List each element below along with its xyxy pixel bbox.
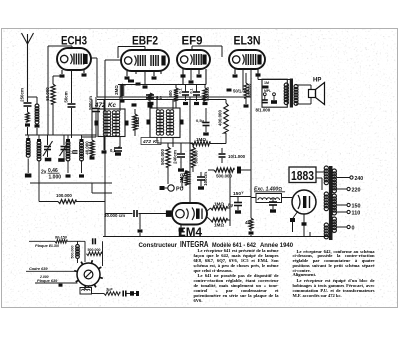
tube ECH3 internals [60,55,67,62]
mains tap 240 [337,177,350,179]
svg-text:100cm: 100cm [203,172,208,186]
svg-text:Cadre 639: Cadre 639 [29,266,48,271]
wire B+ vertical x251 [250,97,252,197]
tube EM4 internals [176,210,184,218]
wire secondary to speaker [296,84,311,86]
variable capacitor 1 [47,135,49,145]
coil band 2 [37,141,41,145]
power transformer primary winding bottom [324,223,328,227]
ground bus wire [103,236,331,238]
IF transformer 1 trimmers [95,121,99,126]
wire tone top with resistor 80-150 [29,240,55,242]
tube EL3N envelope [229,50,265,69]
svg-text:220: 220 [352,188,361,194]
IF transformer 2 windings [156,110,160,114]
svg-text:Constructeur: Constructeur [139,242,178,249]
IF transformer 1 box [98,109,125,137]
wire junction under 40.000 [91,183,93,193]
coil antenna primary [35,104,39,108]
svg-text:50.000: 50.000 [194,150,199,164]
resistor 400.000 under EF9 [203,88,207,101]
wire ECH3 grid loop [47,46,49,135]
resistor 2M under EBF2 [120,84,124,96]
svg-text:3μF: 3μF [106,287,113,291]
resistor 500.000 horizontal [214,168,234,172]
wire PU vertical [167,167,169,184]
trimmer padder [73,150,78,152]
svg-text:Plaque 639: Plaque 639 [37,278,58,283]
switch contact [181,178,184,181]
svg-text:1883: 1883 [291,169,314,183]
resistor 1M EM4 lower [207,217,211,220]
capacitor 8uF field [269,201,277,203]
svg-text:1MΩ: 1MΩ [214,202,224,207]
IF transformer 1 leads [103,100,105,112]
svg-text:110: 110 [352,211,361,217]
svg-text:45: 45 [245,220,251,225]
svg-text:500.000: 500.000 [160,149,165,165]
resistor 400.000 EL3N [244,83,248,98]
svg-text:2MΩ: 2MΩ [114,85,119,95]
IF transformer 2 label 472 Kc [141,138,161,145]
svg-text:400.000: 400.000 [248,84,252,98]
svg-text:EL3N: EL3N [234,36,261,48]
ground caps row [25,174,32,178]
PU jack [168,185,174,191]
svg-text:500.000: 500.000 [88,248,101,252]
svg-text:Kc: Kc [153,139,159,145]
tone corrector box [262,79,287,107]
wire 50.000 down [52,104,54,135]
svg-text:EBF2: EBF2 [132,36,158,48]
IF transformer 2 leads [156,97,158,110]
wire vertical x190 [189,97,191,144]
svg-text:500: 500 [168,90,173,98]
capacitor 30.000cm to EM4 [105,213,133,215]
svg-text:30.000 cm: 30.000 cm [104,213,125,218]
field coil winding [256,194,282,203]
switch rotor [77,263,100,286]
mains tap 0 [337,226,348,228]
resistor 2M right of IF1 [133,114,137,130]
svg-text:400.000: 400.000 [218,110,223,126]
tube ECH3 cathode stem [61,70,63,74]
svg-text:1.000: 1.000 [49,175,62,181]
wire switch left 2 [35,282,78,284]
label 10/1.000 [219,153,226,155]
paragraph right column [293,250,375,275]
capacitor 240cm [180,143,182,153]
svg-text:8μ: 8μ [228,203,233,208]
svg-text:100.000: 100.000 [56,193,72,198]
IF transformer 2 box [150,108,180,138]
resistor 1M horizontal top [192,141,210,145]
capacitor after 500.000 [237,167,241,174]
output transformer primary winding [284,83,288,87]
capacitor trim 2 [58,158,64,162]
resistor small under EBF2 row [148,93,152,100]
resistor 500 under EBF2 [175,85,177,88]
capacitor 500cm oscillator [95,97,97,108]
svg-text:50.000: 50.000 [45,87,50,101]
speaker HP [309,90,316,98]
svg-text:0: 0 [352,226,355,232]
resistor 500.000 tone [87,252,102,256]
wire transformer bottom lead [310,236,329,238]
svg-text:0,1: 0,1 [190,88,194,93]
wire bus under EF9 [118,84,206,86]
wire switch left 1 [26,270,77,272]
IF transformer 1 windings [103,111,107,115]
output transformer core [290,79,293,108]
svg-text:500.000: 500.000 [71,246,75,259]
wire coil2 to 100.000 [38,160,40,202]
wire B+ rail [97,96,251,98]
tube ECH3 right stem [83,70,85,73]
heading Alignement [293,273,375,278]
svg-text:v: v [242,191,244,195]
svg-text:8/1.000: 8/1.000 [256,108,271,113]
wire AVC long vertical [104,97,106,214]
wire ECH3 plate to rail [91,57,97,59]
capacitor 0,1 under EF9 a [182,91,189,93]
capacitor 50cm under ECH3 [68,103,76,105]
tube ECH3 center stem [71,70,73,103]
coil band 3 [66,141,70,145]
svg-text:0,1: 0,1 [110,148,116,153]
wire coil bank top [25,134,96,136]
tube EBF2 stems [126,71,128,76]
tube EL3N internals [233,56,240,63]
tube EM4 envelope [172,203,207,225]
output transformer secondary winding [294,85,298,89]
resistor 40.000 [90,140,94,156]
paragraph left column [194,249,279,303]
power transformer core [329,166,333,240]
tube EL3N stems [234,69,236,74]
capacitor cluster under EBF2 [128,80,134,83]
coil band 4 [80,141,84,145]
wire antenna junction horizontal [28,134,49,136]
svg-text:HP: HP [313,78,321,84]
resistor 45 [249,218,253,229]
svg-text:240: 240 [355,176,364,182]
wire 1883 box to transformer [316,171,326,173]
resistor 400.000 [224,103,228,133]
capacitor 0,1 under EBF2 [146,94,154,96]
svg-text:10/1.000: 10/1.000 [228,154,246,159]
capacitor 250cm (series antenna cap) [24,102,32,104]
svg-text:150: 150 [352,204,361,210]
resistor 50.000 (ECH3 cathode) [53,75,62,77]
mains tap 220 [337,188,348,190]
svg-text:1MΩ: 1MΩ [214,223,224,228]
tube EM4 bottom stem [180,225,182,229]
tube EF9 internals [181,56,188,63]
capacitor 8uF [234,202,242,204]
ground drop after 30.000cm cap [139,214,141,230]
capacitor 0,1 under EF9 b [193,91,200,93]
svg-text:0,1: 0,1 [179,88,183,93]
svg-text:50cm: 50cm [64,91,69,102]
svg-text:ECH3: ECH3 [61,36,87,48]
svg-text:40.000: 40.000 [85,141,90,155]
svg-text:250cm: 250cm [20,88,25,102]
tube EF9 envelope [177,50,210,69]
svg-text:Kc: Kc [108,102,116,109]
tone RC chain [92,293,105,295]
tube EF9 stems [182,69,184,85]
svg-text:2MΩ: 2MΩ [135,117,140,127]
tone loop box [84,241,86,262]
ground blob row under EBF2 [132,103,137,106]
resistor 500.000 vertical [166,147,170,167]
tube EM4 top stem [189,199,191,203]
wire EBF2 left to AVC line [105,59,121,61]
svg-text:2x: 2x [41,170,47,176]
svg-text:80-150: 80-150 [55,236,68,240]
wire IF2 bottom horizontal [157,142,193,144]
wire EF9 top cap [191,46,193,50]
rectifier leads [291,197,293,199]
mains tap 150 [337,204,348,206]
svg-text:Plaque EL3N: Plaque EL3N [35,243,59,248]
tube ECH3 envelope [57,48,91,70]
capacitor trim 1 [45,158,52,162]
tube EBF2 internals [125,57,132,64]
svg-text:1MΩ: 1MΩ [196,137,206,142]
svg-text:400.000: 400.000 [206,87,210,101]
svg-text:240cm: 240cm [173,150,178,164]
wire AVC rail [97,99,226,101]
rectifier label box 1883 [289,167,316,183]
tube EBF2 envelope [121,50,169,71]
ground bus drops [104,214,106,237]
capacitor 100cm [197,176,205,178]
resistor 50.000 vertical [191,147,195,167]
resistor 2M lower [185,171,189,185]
power transformer secondary winding [332,169,336,173]
coil band 1 [26,140,30,144]
wire EL3N plate to corrector box [257,69,259,80]
coil tone vertical [76,245,80,249]
mains tap 110 [337,211,348,213]
power transformer primary winding mid [324,192,328,196]
IF transformer 2 trimmers [147,120,151,125]
wire ECH3 center stem to coil bank [71,108,73,138]
ground blob under antenna coil [35,124,40,127]
wire under coil bank [30,182,112,184]
tone coil box [80,288,92,295]
power transformer primary winding top [324,166,328,170]
resistor 1M EM4 upper [207,208,211,211]
ground blob IF1 [102,150,107,153]
variable capacitor 2 [63,135,65,145]
svg-text:7: 7 [71,151,73,155]
wire 150V rail [230,196,251,198]
svg-text:472: 472 [142,139,151,145]
capacitor 0,1 IF1 [114,147,122,149]
wire EBF2 top cap [144,47,146,51]
rectifier tube 1883 [292,190,316,214]
svg-text:1M: 1M [264,81,269,85]
antenna [27,44,29,102]
wire antenna cap to junction [27,107,29,112]
